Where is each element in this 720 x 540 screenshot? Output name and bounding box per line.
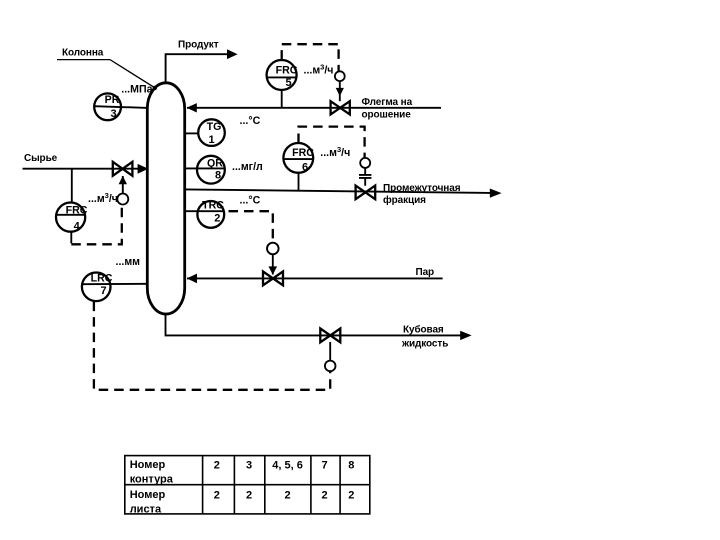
label Сырье xyxy=(24,153,58,164)
svg-text:4: 4 xyxy=(74,221,81,233)
svg-text:1: 1 xyxy=(208,134,214,146)
label Флегма на орошение xyxy=(362,97,413,121)
junction dot on column top xyxy=(153,86,157,90)
wire FRC4 bottom xyxy=(70,232,72,244)
svg-text:2: 2 xyxy=(285,489,291,501)
arrowhead down to valve 5 xyxy=(336,88,344,96)
label Колонна xyxy=(62,48,104,59)
svg-text:Продукт: Продукт xyxy=(178,39,219,50)
svg-text:...м3/ч: ...м3/ч xyxy=(320,145,350,159)
svg-text:6: 6 xyxy=(302,162,308,174)
instrument FRC6 xyxy=(283,143,314,174)
steam arrowhead into column xyxy=(187,274,197,284)
label мм (LRC7) xyxy=(116,256,141,268)
wire feed line to FRC4 xyxy=(71,169,73,203)
svg-text:FRC: FRC xyxy=(276,64,298,76)
table row 2: Номер листа xyxy=(130,489,355,516)
svg-text:контура: контура xyxy=(130,474,174,486)
svg-text:LRC: LRC xyxy=(91,273,113,285)
svg-text:2: 2 xyxy=(214,489,220,501)
signal line FRC4 to actuator (dashed) xyxy=(71,205,122,245)
arrowhead down to valve 2 xyxy=(269,266,278,274)
signal line FRC5 to actuator (dashed) xyxy=(282,44,339,71)
svg-text:PR: PR xyxy=(105,94,120,106)
product line xyxy=(166,54,228,82)
svg-text:8: 8 xyxy=(215,170,221,182)
svg-text:TG: TG xyxy=(207,121,222,133)
svg-text:...°С: ...°С xyxy=(240,115,261,127)
control valve on bottoms line xyxy=(320,329,340,343)
instrument FRC4 xyxy=(56,203,88,233)
svg-text:Кубовая: Кубовая xyxy=(403,324,444,336)
svg-text:7: 7 xyxy=(321,459,327,471)
svg-text:Промежуточная: Промежуточная xyxy=(383,183,461,194)
side draw arrowhead xyxy=(490,189,502,198)
steam line (wire) xyxy=(187,277,443,279)
svg-text:Сырье: Сырье xyxy=(24,153,58,164)
label м3/ч (FRC5) xyxy=(304,63,334,77)
svg-text:...мм: ...мм xyxy=(116,256,141,268)
actuator circle 7 xyxy=(325,361,336,372)
feed arrowhead into column xyxy=(138,164,149,174)
svg-text:...м3/ч: ...м3/ч xyxy=(88,191,118,205)
table row 1: Номер контура xyxy=(130,459,355,486)
svg-text:QR: QR xyxy=(207,158,223,170)
actuator stem 4 with up arrow xyxy=(122,176,124,194)
wire FRC6 to side draw line xyxy=(298,173,300,191)
control valve on steam line xyxy=(263,272,283,286)
svg-text:...мг/л: ...мг/л xyxy=(232,161,263,173)
svg-text:2: 2 xyxy=(348,489,354,501)
actuator stem 2 xyxy=(272,254,274,274)
label Промежуточная фракция xyxy=(383,183,461,206)
svg-text:4, 5, 6: 4, 5, 6 xyxy=(272,459,303,471)
actuator circle 5 xyxy=(335,71,345,81)
label МПа xyxy=(121,84,152,96)
svg-text:...°С: ...°С xyxy=(240,195,261,207)
table frame xyxy=(125,456,370,514)
svg-text:2: 2 xyxy=(214,459,220,471)
svg-text:Номер: Номер xyxy=(130,489,166,501)
bottoms arrowhead xyxy=(460,331,471,340)
svg-text:листа: листа xyxy=(130,503,162,515)
svg-text:2: 2 xyxy=(214,212,220,224)
reflux arrowhead into column xyxy=(187,103,197,112)
bottoms line (wire) xyxy=(166,314,462,336)
svg-text:7: 7 xyxy=(100,285,106,297)
svg-text:Пар: Пар xyxy=(416,267,435,278)
control valve on reflux line xyxy=(331,101,350,114)
svg-text:Номер: Номер xyxy=(130,459,166,471)
label м3/ч (FRC6) xyxy=(320,145,350,159)
svg-text:3: 3 xyxy=(110,108,116,120)
svg-text:жидкость: жидкость xyxy=(401,339,448,350)
label °С (TG1) xyxy=(240,115,261,127)
signal line LRC7 to actuator (dashed) xyxy=(94,302,330,390)
feed line (wire) xyxy=(23,168,139,170)
control valve on side draw line xyxy=(356,186,376,200)
svg-text:2: 2 xyxy=(321,489,327,501)
svg-text:...МПа: ...МПа xyxy=(121,84,152,96)
side draw line (wire) xyxy=(185,189,490,193)
instrument LRC7 xyxy=(82,273,148,302)
label м3/ч (FRC4) xyxy=(88,191,118,205)
label мг/л xyxy=(232,161,263,173)
svg-text:2: 2 xyxy=(246,489,252,501)
svg-text:орошение: орошение xyxy=(362,109,412,120)
leader line from label to column xyxy=(57,60,155,88)
wire FRC5 to reflux line xyxy=(281,90,283,108)
svg-text:FRC: FRC xyxy=(292,147,314,159)
instrument TRC2 xyxy=(185,200,224,228)
reflux line (wire) xyxy=(187,107,441,109)
instrument PR3 xyxy=(94,93,148,120)
instrument QR8 xyxy=(185,156,225,184)
column C1 xyxy=(147,83,184,314)
label Продукт xyxy=(178,39,219,50)
product arrowhead xyxy=(227,49,238,59)
actuator stem 5 xyxy=(339,81,341,101)
label Кубовая жидкость xyxy=(401,324,448,350)
signal line FRC6 to actuator (dashed) xyxy=(299,127,365,158)
actuator stem and bars 6 xyxy=(359,168,371,186)
actuator circle 4 xyxy=(117,194,128,205)
svg-text:TRC: TRC xyxy=(202,200,224,212)
actuator circle 2 xyxy=(267,243,279,255)
svg-text:8: 8 xyxy=(348,459,354,471)
control valve on feed line xyxy=(113,162,133,176)
actuator circle 6 xyxy=(360,158,370,168)
svg-text:FRC: FRC xyxy=(66,205,88,217)
signal line TRC2 to actuator (dashed) xyxy=(229,211,273,243)
svg-text:5: 5 xyxy=(285,77,291,89)
instrument FRC5 xyxy=(267,60,298,90)
label °С (TRC2) xyxy=(240,195,261,207)
instrument TG1 xyxy=(185,119,225,146)
svg-text:фракция: фракция xyxy=(383,194,426,206)
svg-text:Флегма на: Флегма на xyxy=(362,97,413,108)
label Пар xyxy=(416,267,435,278)
svg-text:3: 3 xyxy=(246,459,252,471)
svg-text:...м3/ч: ...м3/ч xyxy=(304,63,334,77)
actuator stem 7 xyxy=(329,342,331,361)
svg-text:Колонна: Колонна xyxy=(62,48,104,59)
